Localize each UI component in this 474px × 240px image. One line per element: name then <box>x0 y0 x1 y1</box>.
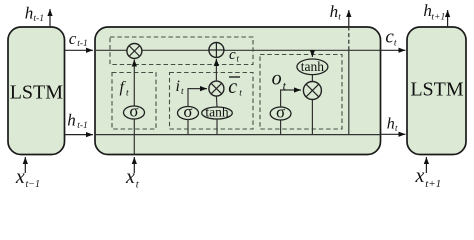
svg-text:i: i <box>176 78 180 95</box>
wire tanh_i up into multiply_i <box>215 96 218 107</box>
svg-text:tanh: tanh <box>205 105 228 120</box>
wire tanh_i down to h line <box>216 119 218 135</box>
wire sigma_i up and right into multiply_i <box>188 89 207 107</box>
svg-text:t+1: t+1 <box>431 12 445 22</box>
svg-text:h: h <box>330 2 339 21</box>
svg-text:c: c <box>228 76 237 98</box>
svg-text:LSTM: LSTM <box>410 79 464 101</box>
wire h_{t+1} output up from right block <box>447 10 449 27</box>
sigma ellipse input gate <box>178 107 199 120</box>
svg-text:x: x <box>415 165 425 187</box>
svg-text:σ: σ <box>129 102 138 121</box>
svg-text:LSTM: LSTM <box>10 82 64 104</box>
dashed output gate box <box>260 55 342 130</box>
svg-text:x: x <box>15 166 25 188</box>
wire h_t from cell to right block <box>381 133 406 135</box>
tanh ellipse output <box>297 59 328 75</box>
svg-text:h: h <box>25 4 34 23</box>
wire h_t branch solid from h line up to c line <box>348 50 350 134</box>
right LSTM block <box>407 27 466 155</box>
wire x_{t+1} input up into right block <box>425 157 427 173</box>
sigma ellipse forget gate <box>124 106 145 119</box>
wire multiply_i up into plus node <box>215 59 217 81</box>
svg-text:σ: σ <box>276 103 285 122</box>
svg-text:h: h <box>387 116 395 133</box>
svg-text:t: t <box>181 87 184 97</box>
wire hidden state line (h) across cell <box>95 134 381 136</box>
sigma ellipse output gate <box>270 107 291 120</box>
svg-text:t: t <box>394 39 397 49</box>
wire cell state line (c) across cell <box>95 49 381 51</box>
wire sigma_f up into multiply node <box>133 60 135 107</box>
wire x_{t-1} input up into left block <box>24 157 26 173</box>
svg-text:t: t <box>126 88 129 98</box>
wire multiply_o down to h line <box>311 99 313 135</box>
svg-text:t: t <box>239 89 242 99</box>
svg-text:x: x <box>125 166 135 188</box>
svg-text:h: h <box>67 111 76 130</box>
svg-text:t-1: t-1 <box>33 14 44 24</box>
wire c_{t-1} from left block to cell <box>65 49 94 51</box>
multiply node output gate <box>303 82 321 100</box>
left LSTM block <box>8 27 65 155</box>
tanh ellipse candidate <box>202 107 233 119</box>
svg-text:t-1: t-1 <box>77 121 88 131</box>
dashed forget gate box <box>112 73 156 130</box>
wire sigma_o up and right into multiply_o <box>281 90 301 107</box>
svg-text:c: c <box>69 29 77 48</box>
wire c line drop into tanh_o <box>311 50 313 57</box>
svg-text:t-1: t-1 <box>77 39 88 49</box>
wire c_t from cell to right block <box>381 49 406 51</box>
svg-text:c: c <box>229 47 236 63</box>
dashed input gate box <box>170 73 254 130</box>
wire h_t output up above cell <box>348 10 350 27</box>
svg-text:tanh: tanh <box>301 59 324 74</box>
middle LSTM cell block <box>95 27 381 155</box>
svg-text:t: t <box>338 13 341 23</box>
wire tanh_o down to multiply_o <box>311 75 313 82</box>
svg-text:σ: σ <box>183 102 192 121</box>
dashed cell-state strip box <box>110 37 253 65</box>
wire x_t input up into cell <box>133 157 135 173</box>
multiply node input gate <box>209 81 224 96</box>
plus node (c line) <box>209 43 224 58</box>
wire h_{t-1} output up from left block <box>49 9 51 27</box>
wire sigma_i down to h line <box>187 120 189 135</box>
multiply node forget (c line) <box>127 44 142 59</box>
wire h_{t-1} from left block to cell <box>65 134 94 136</box>
label c-bar_t <box>229 76 240 78</box>
svg-text:t+1: t+1 <box>425 178 441 190</box>
svg-text:o: o <box>272 67 282 89</box>
wire x_t vertical through h line to sigma_f <box>133 119 135 155</box>
svg-text:t−1: t−1 <box>26 179 41 190</box>
wire sigma_o down to h line <box>280 120 282 135</box>
wire h_t branch dashed from c line to cell top <box>348 27 350 50</box>
